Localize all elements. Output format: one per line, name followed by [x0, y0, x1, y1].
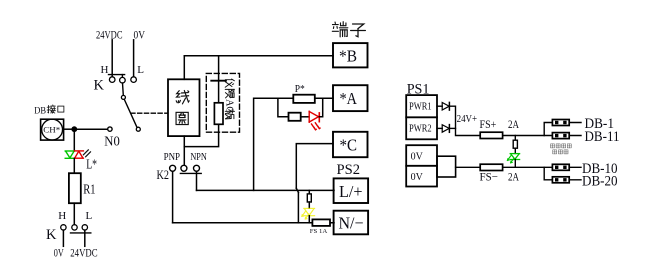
wire LED to R1	[73, 158, 75, 173]
svg-text:*C: *C	[340, 135, 358, 154]
svg-text:K2: K2	[157, 167, 170, 182]
resistor in AC board	[214, 103, 223, 125]
svg-text:N0: N0	[104, 135, 120, 150]
wire FS+ bus to DB-11	[503, 135, 581, 137]
terminal *B	[333, 43, 368, 67]
terminal *A	[333, 85, 368, 111]
wire K-H to 0V	[62, 230, 64, 246]
wire PWR2 to diode D2	[437, 127, 442, 129]
diode D2	[442, 125, 449, 133]
svg-text:24VDC: 24VDC	[96, 30, 123, 42]
label 0V 24VDC bottom	[54, 248, 98, 260]
wire branch down to indicator	[278, 98, 289, 117]
dashed link switch to coil	[131, 112, 168, 114]
wire into dashed box	[218, 56, 220, 81]
fuse clip DB-11	[552, 133, 569, 139]
label 电缆设置 tiny	[551, 144, 572, 148]
label FS- 2A	[480, 170, 520, 184]
svg-text:0V: 0V	[411, 152, 424, 163]
resistor R1	[69, 173, 96, 203]
label 端子	[332, 22, 365, 37]
svg-text:0V: 0V	[54, 248, 64, 260]
wire LED up to *A line	[319, 98, 322, 117]
svg-text:FS 1A: FS 1A	[310, 229, 328, 235]
wire resistor to green LED	[514, 148, 516, 153]
relay contact switch	[121, 95, 140, 131]
LED red P* indicator	[309, 111, 320, 130]
wire top bus to terminal *B	[184, 55, 333, 57]
wire yellow LED to bottom bus	[308, 216, 310, 223]
wire 24VDC down to K bar	[111, 40, 113, 77]
wire 24V riser	[254, 98, 294, 190]
wire coil top pin riser	[183, 56, 185, 80]
wire K mid to relay contact	[122, 83, 125, 95]
svg-text:L*: L*	[86, 158, 97, 173]
label FS+ 2A	[480, 117, 520, 131]
wire green LED chain from FS+ bus	[514, 136, 516, 141]
svg-text:R1: R1	[83, 183, 95, 198]
wire coil bottom to K2 mid	[183, 136, 185, 165]
svg-text:24VDC: 24VDC	[70, 248, 98, 260]
0V box	[406, 145, 437, 186]
wire tee down to DB-20	[544, 167, 581, 180]
fuse clip DB-10	[552, 164, 569, 170]
terminal block K bottom	[46, 210, 93, 243]
svg-text:DB: DB	[34, 106, 46, 116]
resistor in yellow LED chain	[307, 194, 311, 202]
wire resistor to LED	[301, 116, 309, 118]
wire 0V down to K-L	[133, 40, 135, 77]
svg-text:CH*: CH*	[43, 125, 60, 135]
resistor in P* indicator branch	[289, 113, 301, 121]
wire fuse to *A	[315, 97, 333, 99]
wire K-L to 24VDC	[84, 230, 86, 246]
svg-text:L/+: L/+	[339, 182, 363, 201]
wire resistor down and step left	[184, 124, 218, 146]
diode D1	[442, 102, 449, 110]
svg-text:0V: 0V	[134, 30, 146, 42]
wire 0V square to FS-	[456, 166, 481, 168]
svg-text:DB-11: DB-11	[585, 129, 620, 145]
LED L* bicolor green/red	[65, 150, 97, 173]
power supply box PWR1 PWR2	[406, 95, 437, 139]
LED yellow power indicator	[302, 208, 315, 219]
svg-text:DB-20: DB-20	[582, 174, 618, 190]
fuse FS-	[480, 164, 502, 170]
wire resistor to yellow LED	[308, 202, 310, 208]
svg-text:24V+: 24V+	[457, 114, 478, 125]
svg-text:H: H	[58, 210, 66, 222]
wire R1 to terminal K	[73, 203, 75, 225]
terminal *C	[333, 132, 368, 157]
wire hop jog	[296, 188, 298, 192]
resistor in green LED chain	[513, 140, 517, 148]
relay coil box 线圈	[168, 79, 200, 136]
svg-text:0V: 0V	[411, 172, 424, 183]
svg-text:2A: 2A	[508, 117, 519, 131]
wire FS- bus to DB-10	[503, 166, 581, 168]
wire diode outputs join 24V+ node	[449, 106, 480, 135]
svg-text:*B: *B	[339, 47, 357, 66]
wire bar to resistor	[218, 81, 220, 103]
node A junction dot	[71, 126, 77, 132]
wire PWR1 to diode D1	[437, 105, 442, 107]
fuse clip DB-20	[552, 177, 569, 183]
svg-text:FS+: FS+	[480, 117, 497, 131]
svg-text:PWR2: PWR2	[409, 124, 432, 135]
fuse P*	[293, 84, 315, 103]
wire D2 to node	[449, 127, 455, 129]
wire CH* to node A	[64, 128, 72, 130]
wire bottom bus to N/-	[173, 222, 334, 224]
label 短接槽 tiny	[553, 150, 568, 154]
junction square 0V outputs	[437, 156, 456, 177]
wire green LED to FS- bus	[514, 160, 516, 168]
LED green FS indicator	[507, 154, 519, 163]
svg-text:L: L	[137, 64, 144, 76]
terminal block K top	[94, 64, 145, 94]
wire PNP down	[172, 171, 174, 222]
svg-text:N/−: N/−	[339, 214, 364, 233]
terminal N/-	[334, 211, 369, 235]
wire tee up to DB-1	[544, 123, 581, 136]
wire jog down to bottom bus	[297, 192, 299, 222]
fuse clip DB-1	[552, 120, 569, 126]
terminal block K2	[157, 151, 207, 182]
svg-text:NPN: NPN	[190, 151, 206, 163]
svg-text:2A: 2A	[508, 170, 519, 184]
dashed box 仪表AC板	[206, 73, 239, 132]
wire node A down to LED L*	[73, 129, 75, 151]
fuse at N/- input	[310, 219, 330, 234]
svg-text:FS−: FS−	[480, 170, 499, 184]
label DB接口	[34, 105, 64, 116]
fuse FS+	[480, 132, 502, 138]
wire *C horizontal	[296, 144, 333, 189]
terminal N0	[104, 127, 120, 150]
svg-text:K: K	[94, 78, 105, 94]
capacitor plate bar	[211, 80, 226, 82]
wire L/+ bus to resistor chain	[308, 190, 310, 194]
wire NPN down	[196, 171, 198, 190]
svg-text:K: K	[46, 227, 57, 243]
svg-text:PWR1: PWR1	[409, 101, 432, 112]
svg-text:L: L	[86, 210, 93, 222]
svg-text:PNP: PNP	[164, 151, 180, 163]
svg-text:PS2: PS2	[337, 162, 361, 178]
svg-text:H: H	[101, 64, 109, 76]
svg-text:*A: *A	[340, 89, 358, 108]
terminal L/+	[334, 178, 369, 203]
wire L/+ bus	[197, 189, 335, 191]
svg-text:P*: P*	[295, 84, 305, 95]
connector CH*	[41, 119, 64, 140]
wire node A to N0 terminal	[74, 128, 107, 130]
